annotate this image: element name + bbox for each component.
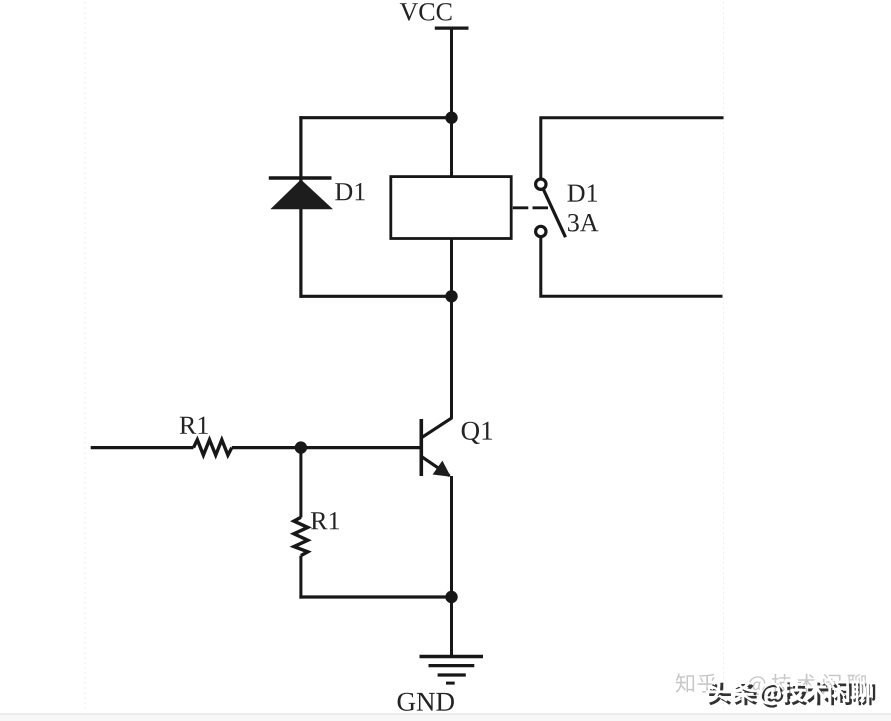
wire VCC bar to junction A <box>450 28 453 118</box>
label R1 (pulldown resistor) <box>311 512 339 529</box>
scan area edge left <box>84 2 86 711</box>
wire junction C down to pulldown resistor <box>299 448 302 518</box>
ground bar 4 <box>446 682 455 685</box>
wire diode branch bottom to junction B <box>301 295 452 298</box>
watermark grey "知乎" <box>676 673 717 692</box>
relay coil K1 rectangle <box>391 177 511 239</box>
wire relay coil bottom to junction B <box>450 239 453 297</box>
relay contact fixed terminal (top circle) <box>536 179 546 189</box>
wire contact branch top (corner to right rail) <box>541 118 724 178</box>
ground bar 2 <box>429 664 475 667</box>
node C junction dot (base wire / pulldown) <box>295 441 307 453</box>
wire base lead left segment <box>91 446 194 449</box>
net VCC label <box>400 3 452 21</box>
label D1 (relay contact) <box>568 184 598 201</box>
wire junction B to collector <box>450 296 453 419</box>
relay switch armature blade <box>544 190 566 237</box>
label 3A contact rating <box>568 214 598 232</box>
resistor R1 pulldown zigzag <box>294 517 308 555</box>
node A junction dot (VCC rail / relay coil / diode branch) <box>445 112 457 124</box>
watermark dark shadow "头条 @技术闲聊" <box>709 683 875 708</box>
ground bar 1 <box>420 655 484 658</box>
wire junction A to relay coil top <box>450 118 453 177</box>
relay contact moving terminal (bottom circle) <box>536 226 546 236</box>
dashed mechanical link coil to contact <box>513 206 548 209</box>
VCC power rail bar <box>435 27 469 30</box>
node B junction dot (diode / coil / collector) <box>445 290 457 302</box>
label D1 (flyback diode) <box>335 183 365 200</box>
label Q1 <box>462 422 492 444</box>
diode D1 triangle (anode, pointing up) <box>270 180 333 210</box>
wire bottom rail to junction D <box>299 595 451 598</box>
wire junction A left to diode branch <box>299 116 451 119</box>
transistor Q1 collector diagonal <box>421 418 452 438</box>
label GND <box>398 693 454 711</box>
wire base lead right segment <box>232 446 421 449</box>
diode D1 cathode bar <box>269 176 332 179</box>
wire contact branch bottom (circle to right rail) <box>541 238 723 297</box>
ground bar 3 <box>438 673 466 676</box>
node D junction dot (emitter / pulldown / ground) <box>445 591 457 603</box>
wire emitter vertical <box>450 476 453 597</box>
transistor Q1 emitter arrow <box>433 461 451 477</box>
watermark grey "@技术闲聊" <box>748 674 866 695</box>
wire diode branch vertical <box>299 116 302 298</box>
wire junction D to ground <box>450 597 453 657</box>
scan area edge right <box>723 2 725 711</box>
label R1 (base resistor) <box>180 417 208 434</box>
watermark highlight "头条 @技术闲聊" (embossed white body) <box>706 680 872 705</box>
resistor R1 base zigzag <box>194 440 232 455</box>
bottom page divider strip <box>0 713 891 715</box>
transistor Q1 emitter diagonal <box>421 456 449 475</box>
transistor Q1 base bar <box>419 419 423 476</box>
wire pulldown resistor to bottom rail <box>299 556 302 599</box>
